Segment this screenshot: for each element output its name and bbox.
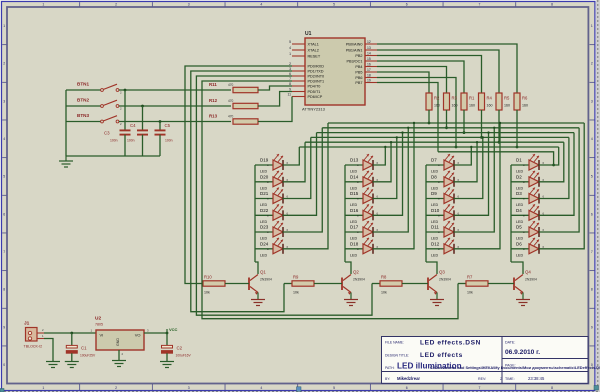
U1 pin 1 RESET bbox=[289, 52, 321, 59]
svg-text:BTN1: BTN1 bbox=[77, 82, 89, 87]
svg-text:7805: 7805 bbox=[95, 323, 103, 327]
selection handle bottom-right bbox=[594, 386, 599, 391]
wire LED D23 cathode to bus bbox=[283, 128, 323, 232]
node BTN3 cap junction bbox=[159, 120, 162, 123]
svg-text:D24: D24 bbox=[260, 241, 269, 246]
svg-text:4: 4 bbox=[591, 137, 593, 141]
svg-text:R9: R9 bbox=[293, 275, 299, 280]
svg-text:9: 9 bbox=[3, 325, 5, 329]
svg-text:18: 18 bbox=[367, 74, 371, 78]
wire BTN3 to R13 bbox=[119, 121, 231, 123]
svg-text:D8: D8 bbox=[431, 174, 437, 179]
svg-text:D22: D22 bbox=[260, 208, 269, 213]
title block texts bbox=[385, 340, 545, 382]
capacitor C1 bbox=[66, 332, 96, 362]
svg-text:1: 1 bbox=[591, 24, 593, 28]
wire LED D7 cathode to bus bbox=[454, 146, 473, 165]
svg-text:C2: C2 bbox=[177, 346, 183, 351]
capacitor C5 labels bbox=[165, 123, 173, 143]
U1 pin 9 PD5/T1 bbox=[289, 88, 320, 95]
svg-text:8: 8 bbox=[551, 3, 553, 7]
svg-text:D4: D4 bbox=[516, 208, 522, 213]
svg-text:3: 3 bbox=[188, 3, 190, 7]
wire LED D20 cathode to bus bbox=[283, 142, 306, 182]
svg-text:9: 9 bbox=[591, 325, 593, 329]
svg-text:LED: LED bbox=[350, 203, 358, 207]
wire Q4 collector bbox=[511, 262, 523, 274]
ground J1 bbox=[46, 362, 60, 368]
U1 pin 6 PD2/INT0 bbox=[289, 72, 324, 79]
svg-text:5: 5 bbox=[591, 175, 593, 179]
svg-text:7: 7 bbox=[3, 250, 5, 254]
bus row net 6 bbox=[299, 146, 558, 148]
wire PD3 to R7 bbox=[202, 81, 458, 319]
svg-text:D9: D9 bbox=[431, 191, 437, 196]
svg-text:LED: LED bbox=[350, 170, 358, 174]
svg-text:17: 17 bbox=[367, 68, 371, 72]
svg-text:PB4: PB4 bbox=[355, 65, 362, 69]
capacitor C2 bbox=[162, 333, 192, 362]
wire Q3 emitter bbox=[436, 293, 438, 300]
wire R12 to U1 bbox=[258, 92, 292, 107]
svg-text:LED: LED bbox=[260, 253, 268, 257]
LED D10 bbox=[426, 204, 454, 224]
svg-text:D23: D23 bbox=[260, 225, 269, 230]
svg-text:LED: LED bbox=[260, 186, 268, 190]
grey margin bottom bbox=[0, 391, 600, 392]
svg-text:1: 1 bbox=[42, 386, 44, 390]
svg-text:Q2: Q2 bbox=[353, 270, 359, 275]
wire R11 to U1 bbox=[258, 86, 292, 90]
bus row net 1 bbox=[328, 122, 584, 124]
capacitor C3 labels bbox=[104, 131, 118, 143]
LED D5 bbox=[511, 221, 539, 241]
svg-text:470: 470 bbox=[228, 83, 234, 87]
transistor Q2 bbox=[342, 270, 365, 295]
svg-text:XTAL1: XTAL1 bbox=[308, 43, 319, 47]
svg-text:1: 1 bbox=[42, 3, 44, 7]
wire U1 PB7 to bus bbox=[377, 83, 438, 152]
svg-text:PD2/INT0: PD2/INT0 bbox=[308, 75, 325, 79]
wire Q1 collector bbox=[255, 262, 258, 274]
svg-text:C5: C5 bbox=[165, 123, 171, 128]
LED D2 bbox=[511, 171, 539, 191]
svg-text:D6: D6 bbox=[516, 241, 522, 246]
svg-text:LED: LED bbox=[260, 220, 268, 224]
svg-text:R8: R8 bbox=[381, 275, 387, 280]
svg-text:4: 4 bbox=[260, 3, 262, 7]
svg-text:6: 6 bbox=[3, 212, 5, 216]
svg-text:D15: D15 bbox=[350, 191, 359, 196]
svg-text:06.9.2010 г.: 06.9.2010 г. bbox=[505, 349, 540, 356]
wire PD1 to R9 bbox=[191, 71, 292, 312]
bus row net 2 bbox=[322, 127, 579, 129]
svg-text:LED: LED bbox=[516, 170, 524, 174]
wire R13 to U1 bbox=[258, 97, 292, 122]
svg-text:16: 16 bbox=[367, 63, 371, 67]
svg-text:VI: VI bbox=[100, 333, 104, 338]
svg-text:19: 19 bbox=[367, 79, 371, 83]
svg-text:XTAL2: XTAL2 bbox=[308, 49, 319, 53]
svg-text:2N3904: 2N3904 bbox=[260, 278, 272, 282]
wire LED D10 cathode to bus bbox=[454, 131, 490, 215]
resistor R11 bbox=[209, 82, 258, 93]
svg-text:PD4/T0: PD4/T0 bbox=[308, 85, 321, 89]
svg-text:LED: LED bbox=[431, 220, 439, 224]
svg-text:160: 160 bbox=[434, 104, 440, 108]
U1 pin 18 PB6 bbox=[355, 74, 377, 81]
svg-text:2: 2 bbox=[115, 3, 117, 7]
svg-text:14: 14 bbox=[367, 52, 371, 56]
ground buttons bbox=[59, 156, 73, 167]
wire BTN1 to R11 bbox=[119, 89, 231, 91]
svg-text:LED effects: LED effects bbox=[420, 352, 463, 359]
svg-text:6: 6 bbox=[591, 212, 593, 216]
resistor R12 bbox=[209, 98, 258, 109]
ground Q4 bbox=[516, 300, 530, 306]
svg-text:D19: D19 bbox=[260, 158, 269, 163]
LED D21 bbox=[255, 188, 283, 208]
svg-text:11: 11 bbox=[287, 93, 291, 97]
svg-text:3: 3 bbox=[3, 99, 5, 103]
LED D9 bbox=[426, 188, 454, 208]
svg-text:PD5/T1: PD5/T1 bbox=[308, 90, 321, 94]
mcu U1 value ATTINY2313 bbox=[302, 107, 326, 112]
svg-text:15: 15 bbox=[367, 57, 371, 61]
resistor R2 bbox=[426, 93, 440, 110]
svg-text:D1: D1 bbox=[516, 158, 522, 163]
resistor R13 bbox=[209, 113, 258, 124]
svg-text:23:38:45: 23:38:45 bbox=[528, 376, 545, 381]
wire PD2 to R8 bbox=[196, 76, 372, 315]
svg-text:C3: C3 bbox=[104, 131, 110, 136]
LED D18 bbox=[345, 238, 373, 258]
U1 pin 8 PD4/T0 bbox=[289, 82, 320, 89]
svg-text:4: 4 bbox=[3, 137, 5, 141]
wire LED D3 cathode to bus bbox=[539, 137, 569, 198]
svg-text:C1: C1 bbox=[81, 346, 87, 351]
wire U1 to R2 bbox=[377, 72, 429, 93]
svg-text:C4: C4 bbox=[130, 123, 136, 128]
svg-text:REV:: REV: bbox=[478, 377, 486, 381]
svg-text:PD1/TXD: PD1/TXD bbox=[308, 70, 324, 74]
svg-text:PATH:: PATH: bbox=[385, 366, 395, 370]
wire LED D4 cathode to bus bbox=[539, 133, 575, 216]
capacitor C4 wiring bbox=[137, 106, 148, 156]
svg-text:7: 7 bbox=[478, 3, 480, 7]
U1 pin 2 PD0/RXD bbox=[289, 62, 324, 69]
U1 pin 5 XTAL1 bbox=[289, 40, 319, 47]
bus row net 4 bbox=[311, 136, 569, 138]
svg-text:R3: R3 bbox=[452, 96, 458, 101]
svg-text:PB7: PB7 bbox=[355, 81, 362, 85]
svg-text:R1: R1 bbox=[469, 96, 475, 101]
wire U2 VO to VCC bbox=[144, 332, 168, 335]
svg-text:R6: R6 bbox=[522, 96, 528, 101]
wire R1 to bus bbox=[463, 110, 466, 134]
svg-text:D21: D21 bbox=[260, 191, 269, 196]
svg-text:LED: LED bbox=[516, 253, 524, 257]
wire LED D19 cathode to bus bbox=[283, 147, 300, 165]
transistor Q1 bbox=[249, 270, 272, 295]
svg-text:8: 8 bbox=[591, 288, 593, 292]
LED D1 bbox=[511, 154, 539, 174]
svg-text:6: 6 bbox=[406, 386, 408, 390]
svg-text:D12: D12 bbox=[431, 241, 440, 246]
svg-text:R12: R12 bbox=[209, 98, 218, 103]
svg-text:LED effects.DSN: LED effects.DSN bbox=[420, 340, 481, 347]
capacitor C3 wiring bbox=[120, 90, 131, 156]
ground Q1 bbox=[251, 300, 265, 306]
svg-text:470: 470 bbox=[228, 99, 234, 103]
svg-text:PD6/ICP: PD6/ICP bbox=[308, 95, 323, 99]
wire U1 to R1 bbox=[377, 61, 464, 93]
svg-text:100n: 100n bbox=[110, 139, 118, 143]
U1 pin 4 XTAL2 bbox=[289, 46, 319, 53]
wire LED D5 cathode to bus bbox=[539, 128, 580, 232]
LED D13 bbox=[345, 154, 373, 174]
svg-text:PB2: PB2 bbox=[355, 54, 362, 58]
svg-text:R7: R7 bbox=[467, 275, 473, 280]
svg-text:6: 6 bbox=[406, 3, 408, 7]
svg-text:2: 2 bbox=[3, 62, 5, 66]
svg-text:U1: U1 bbox=[305, 31, 312, 37]
connector J1 bbox=[24, 321, 43, 349]
wire LED D24 cathode to bus bbox=[283, 123, 329, 249]
wire Q4 emitter bbox=[522, 293, 524, 300]
wire LED D11 cathode to bus bbox=[454, 127, 496, 232]
svg-text:1: 1 bbox=[3, 24, 5, 28]
svg-text:13: 13 bbox=[367, 46, 371, 50]
svg-text:1: 1 bbox=[289, 52, 291, 56]
LED D20 bbox=[255, 171, 283, 191]
svg-text:2: 2 bbox=[591, 62, 593, 66]
wire LED D22 cathode to bus bbox=[283, 133, 317, 216]
wire R5 to bus bbox=[498, 110, 501, 144]
svg-text:VO: VO bbox=[135, 333, 141, 338]
regulator U2 7805 bbox=[90, 316, 149, 357]
svg-text:5: 5 bbox=[3, 175, 5, 179]
U1 pin 13 PB1/AIN1 bbox=[346, 46, 377, 53]
wire R2 to bus bbox=[428, 110, 431, 124]
LED D23 bbox=[255, 221, 283, 241]
svg-text:BTN3: BTN3 bbox=[77, 113, 89, 118]
U1 pin 7 PD3/INT1 bbox=[289, 77, 324, 84]
svg-text:U2: U2 bbox=[95, 316, 101, 322]
wire LED D14 cathode to bus bbox=[373, 141, 393, 182]
svg-text:FILE NAME:: FILE NAME: bbox=[385, 341, 404, 345]
ground U2 bbox=[112, 361, 126, 367]
wire J1 pin1 to ground bbox=[37, 334, 53, 362]
svg-text:D2: D2 bbox=[516, 174, 522, 179]
selection dashed line bottom bbox=[0, 390, 600, 392]
LED D14 bbox=[345, 171, 373, 191]
svg-text:VCC: VCC bbox=[169, 327, 178, 332]
svg-text:Q1: Q1 bbox=[260, 270, 266, 275]
wire LED D9 cathode to bus bbox=[454, 136, 484, 198]
svg-text:ATTINY2313: ATTINY2313 bbox=[302, 107, 326, 112]
svg-text:LED: LED bbox=[260, 170, 268, 174]
svg-text:160: 160 bbox=[469, 104, 475, 108]
svg-text:D17: D17 bbox=[350, 225, 359, 230]
svg-text:PB0/AIN0: PB0/AIN0 bbox=[346, 43, 363, 47]
wire U1 to R5 bbox=[377, 50, 499, 93]
svg-text:LED: LED bbox=[350, 253, 358, 257]
wire Q2 collector bbox=[345, 262, 351, 274]
resistor R10 bbox=[195, 275, 249, 295]
svg-text:PB5: PB5 bbox=[355, 71, 362, 75]
wire Q3 collector bbox=[426, 262, 437, 274]
node BTN1 cap junction bbox=[124, 89, 127, 92]
svg-text:TBLOCK-I2: TBLOCK-I2 bbox=[24, 345, 43, 349]
wire LED column 1 anode bbox=[254, 165, 256, 262]
svg-text:LED: LED bbox=[431, 253, 439, 257]
svg-text:D20: D20 bbox=[260, 174, 269, 179]
svg-text:LED: LED bbox=[516, 220, 524, 224]
resistor R5 bbox=[496, 93, 510, 110]
svg-text:LED: LED bbox=[350, 237, 358, 241]
svg-text:LED: LED bbox=[431, 170, 439, 174]
svg-text:8: 8 bbox=[551, 386, 553, 390]
svg-text:TIME:: TIME: bbox=[505, 377, 515, 381]
selection handle bottom-left bbox=[0, 389, 4, 392]
schematic text LED illumination bbox=[397, 362, 600, 371]
svg-text:10k: 10k bbox=[467, 291, 473, 295]
svg-text:D10: D10 bbox=[431, 208, 440, 213]
svg-text:10k: 10k bbox=[204, 291, 210, 295]
ground Q2 bbox=[344, 300, 358, 306]
U1 pin 11 PD6/ICP bbox=[287, 93, 322, 100]
mcu U1 label bbox=[305, 31, 312, 37]
svg-text:4: 4 bbox=[289, 46, 291, 50]
svg-text:D18: D18 bbox=[350, 241, 359, 246]
svg-text:J1: J1 bbox=[24, 321, 30, 327]
LED D16 bbox=[345, 204, 373, 224]
svg-text:R11: R11 bbox=[209, 82, 217, 87]
resistor R4 bbox=[479, 93, 493, 110]
svg-text:R13: R13 bbox=[209, 113, 218, 118]
resistor R3 bbox=[444, 93, 458, 110]
svg-text:2N3904: 2N3904 bbox=[525, 278, 537, 282]
svg-text:7: 7 bbox=[591, 250, 593, 254]
svg-text:100uF16V: 100uF16V bbox=[176, 354, 192, 358]
U1 pin 3 PD1/TXD bbox=[289, 67, 324, 74]
wire LED D12 cathode to bus bbox=[454, 122, 502, 249]
svg-text:Mikedzlrear: Mikedzlrear bbox=[397, 376, 420, 381]
U1 pin 15 PB3/OC1 bbox=[346, 57, 377, 64]
svg-text:8: 8 bbox=[3, 288, 5, 292]
LED D22 bbox=[255, 204, 283, 224]
wire U1 PB6 to bus bbox=[377, 78, 457, 149]
svg-text:3: 3 bbox=[591, 99, 593, 103]
bus row net 5 bbox=[305, 141, 564, 143]
wire LED D2 cathode to bus bbox=[539, 142, 564, 182]
svg-text:DESIGN TITLE:: DESIGN TITLE: bbox=[385, 354, 409, 358]
title block bbox=[382, 337, 589, 384]
wire bus line 7 bbox=[438, 152, 555, 167]
svg-text:Q4: Q4 bbox=[525, 270, 531, 275]
svg-text:5: 5 bbox=[333, 3, 335, 7]
wire LED D15 cathode to bus bbox=[373, 136, 398, 198]
LED D15 bbox=[345, 188, 373, 208]
wire LED D16 cathode to bus bbox=[373, 131, 404, 215]
svg-text:7: 7 bbox=[478, 386, 480, 390]
wire LED D8 cathode to bus bbox=[454, 141, 479, 182]
LED D17 bbox=[345, 221, 373, 241]
selection handle bottom-center bbox=[297, 387, 302, 392]
node BTN2 cap junction bbox=[141, 105, 144, 108]
mcu U1 body bbox=[305, 38, 365, 105]
svg-text:D5: D5 bbox=[516, 225, 522, 230]
svg-text:R10: R10 bbox=[204, 275, 212, 280]
ground C2 bbox=[160, 362, 174, 368]
wire R4 to bus bbox=[480, 110, 483, 139]
svg-text:C:\Documents and Settings\ЖЕКА: C:\Documents and Settings\ЖЕКА\My Docume… bbox=[430, 365, 600, 370]
U1 pin 16 PB4 bbox=[355, 63, 377, 70]
svg-text:BTN2: BTN2 bbox=[77, 98, 89, 103]
wire LED column 4 anode bbox=[510, 165, 512, 262]
svg-text:D13: D13 bbox=[350, 158, 359, 163]
button BTN3 bbox=[66, 113, 122, 126]
wire LED D18 cathode to bus bbox=[373, 122, 416, 249]
svg-text:D14: D14 bbox=[350, 174, 359, 179]
svg-text:Q3: Q3 bbox=[439, 270, 445, 275]
wire LED D6 cathode to bus bbox=[539, 123, 585, 249]
svg-text:PD3/INT1: PD3/INT1 bbox=[308, 80, 325, 84]
svg-text:2: 2 bbox=[115, 386, 117, 390]
LED D6 bbox=[511, 238, 539, 258]
svg-text:R4: R4 bbox=[487, 96, 493, 101]
resistor R9 bbox=[284, 275, 342, 295]
svg-text:LED: LED bbox=[516, 203, 524, 207]
svg-text:LED: LED bbox=[431, 186, 439, 190]
LED D7 bbox=[426, 154, 454, 174]
wire capacitor common bbox=[66, 155, 160, 157]
svg-text:D3: D3 bbox=[516, 191, 522, 196]
selection dashed line right bbox=[597, 0, 599, 392]
wire button common vertical bbox=[65, 90, 67, 156]
wire LED D1 cathode to bus bbox=[539, 147, 559, 165]
svg-text:4: 4 bbox=[260, 386, 262, 390]
svg-text:D11: D11 bbox=[431, 225, 439, 230]
bus row net 3 bbox=[317, 132, 574, 134]
svg-text:LED: LED bbox=[431, 237, 439, 241]
svg-text:PB1/AIN1: PB1/AIN1 bbox=[346, 49, 363, 53]
wire J1 pin2 rail bbox=[37, 328, 96, 333]
svg-text:100uF25V: 100uF25V bbox=[80, 354, 96, 358]
LED D3 bbox=[511, 188, 539, 208]
capacitor C4 labels bbox=[127, 123, 136, 143]
wire R6 to bus bbox=[516, 110, 519, 148]
svg-text:160: 160 bbox=[452, 104, 458, 108]
svg-text:160: 160 bbox=[487, 104, 493, 108]
svg-text:D16: D16 bbox=[350, 208, 359, 213]
svg-text:PD0/RXD: PD0/RXD bbox=[308, 65, 325, 69]
svg-text:R5: R5 bbox=[504, 96, 510, 101]
svg-text:100n: 100n bbox=[165, 139, 173, 143]
ground C1 bbox=[65, 362, 79, 368]
svg-text:LED: LED bbox=[516, 237, 524, 241]
svg-text:160: 160 bbox=[522, 104, 528, 108]
svg-text:2N3904: 2N3904 bbox=[439, 278, 451, 282]
svg-text:LED: LED bbox=[260, 203, 268, 207]
wire U1 to R4 bbox=[377, 56, 482, 93]
transistor Q4 bbox=[514, 270, 537, 295]
svg-text:12: 12 bbox=[367, 40, 371, 44]
svg-text:5: 5 bbox=[289, 40, 291, 44]
grey margin right bbox=[596, 0, 600, 392]
svg-text:PB6: PB6 bbox=[355, 76, 362, 80]
